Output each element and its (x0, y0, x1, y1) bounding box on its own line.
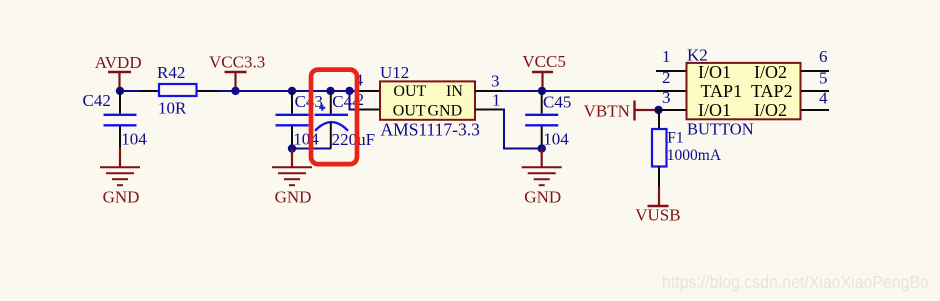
node C45 bottom junction (538, 144, 546, 152)
capacitor C43 (276, 91, 323, 149)
svg-text:104: 104 (543, 130, 569, 149)
svg-text:I/O2: I/O2 (754, 100, 787, 120)
svg-text:3: 3 (662, 88, 671, 107)
svg-text:1: 1 (492, 91, 501, 110)
svg-text:GND: GND (428, 103, 463, 120)
pin 3 (656, 109, 686, 111)
svg-text:1: 1 (662, 47, 671, 66)
node VCC3.3 junction (231, 87, 239, 95)
pin 1 (475, 109, 502, 111)
wire R42 to VCC3.3 junction (218, 90, 236, 92)
node C43 top junction (288, 87, 296, 95)
ground under C43/C44 (272, 149, 312, 207)
svg-text:I/O1: I/O1 (698, 100, 731, 120)
resistor R42 (140, 63, 218, 118)
wire U12 pin3 to VCC5 (503, 90, 542, 92)
pin 2 (358, 109, 380, 111)
wire VCC3.3 to U12 pin4 (236, 90, 359, 92)
node VCC5 junction (538, 87, 546, 95)
svg-text:C45: C45 (543, 92, 571, 111)
power port VCC5 (522, 52, 565, 90)
wire VCC5 to K2 pin2 (542, 90, 657, 92)
svg-text:TAP2: TAP2 (751, 81, 793, 101)
svg-text:104: 104 (121, 130, 147, 149)
svg-text:OUT: OUT (393, 83, 426, 100)
connector K2 (656, 46, 829, 139)
svg-text:GND: GND (275, 188, 312, 207)
svg-text:I/O1: I/O1 (698, 62, 731, 82)
svg-text:OUT: OUT (393, 103, 426, 120)
svg-text:VBTN: VBTN (584, 102, 630, 121)
svg-text:VUSB: VUSB (635, 206, 680, 225)
node AVDD/C42 junction (116, 87, 124, 95)
svg-text:4: 4 (819, 89, 828, 108)
node GND junction under C43 (288, 144, 296, 152)
svg-text:104: 104 (293, 130, 319, 149)
power port VBTN (584, 101, 657, 121)
regulator U12 (AMS1117-3.3) (355, 63, 504, 139)
svg-text:6: 6 (819, 47, 828, 66)
svg-text:5: 5 (819, 69, 828, 88)
fuse F1 (652, 110, 722, 187)
node VBTN/F1/K2pin3 junction (654, 106, 662, 114)
node U12 pin2 branch junction (345, 87, 353, 95)
svg-text:AMS1117-3.3: AMS1117-3.3 (381, 119, 481, 139)
svg-text:I/O2: I/O2 (754, 62, 787, 82)
wire junction down to pin 2 (350, 91, 360, 110)
pin 2 (656, 90, 686, 92)
red highlight annotation around C44 (311, 70, 357, 165)
capacitor C42 (83, 91, 148, 149)
pin 3 (475, 90, 504, 92)
svg-text:GND: GND (524, 188, 561, 207)
svg-text:VCC3.3: VCC3.3 (209, 53, 265, 72)
power port VUSB (635, 187, 680, 225)
pin 5 (801, 90, 829, 92)
power port AVDD (95, 53, 142, 90)
svg-text:1000mA: 1000mA (667, 147, 722, 164)
wire AVDD junction to R42 (119, 90, 140, 92)
svg-text:BUTTON: BUTTON (687, 120, 754, 139)
svg-text:GND: GND (103, 188, 140, 207)
pin 4 (801, 109, 829, 111)
pin 6 (801, 70, 829, 72)
svg-text:F1: F1 (667, 130, 683, 147)
svg-text:C42: C42 (83, 91, 111, 110)
node C44 top junction (326, 87, 334, 95)
svg-text:3: 3 (491, 72, 500, 91)
pin 4 (358, 90, 380, 92)
svg-text:10R: 10R (158, 99, 187, 118)
capacitor C44 (polarized) (315, 91, 376, 149)
svg-text:U12: U12 (380, 63, 409, 82)
svg-text:TAP1: TAP1 (701, 81, 743, 101)
wire C44 bottom to GND junction (292, 148, 331, 150)
svg-text:IN: IN (446, 83, 463, 100)
wire U12 pin1 to C45 bottom (502, 110, 542, 149)
pin 1 (656, 70, 686, 72)
svg-text:2: 2 (662, 68, 671, 87)
svg-text:220uF: 220uF (332, 130, 375, 149)
ground under C42 (100, 147, 140, 207)
capacitor C45 (525, 91, 571, 149)
svg-text:https://blog.csdn.net/XiaoXiao: https://blog.csdn.net/XiaoXiaoPengBo (662, 272, 929, 292)
svg-text:R42: R42 (157, 63, 185, 82)
power port VCC3.3 (209, 53, 265, 91)
ground under C45 (522, 149, 562, 207)
svg-text:AVDD: AVDD (95, 53, 142, 72)
svg-text:VCC5: VCC5 (522, 52, 565, 71)
